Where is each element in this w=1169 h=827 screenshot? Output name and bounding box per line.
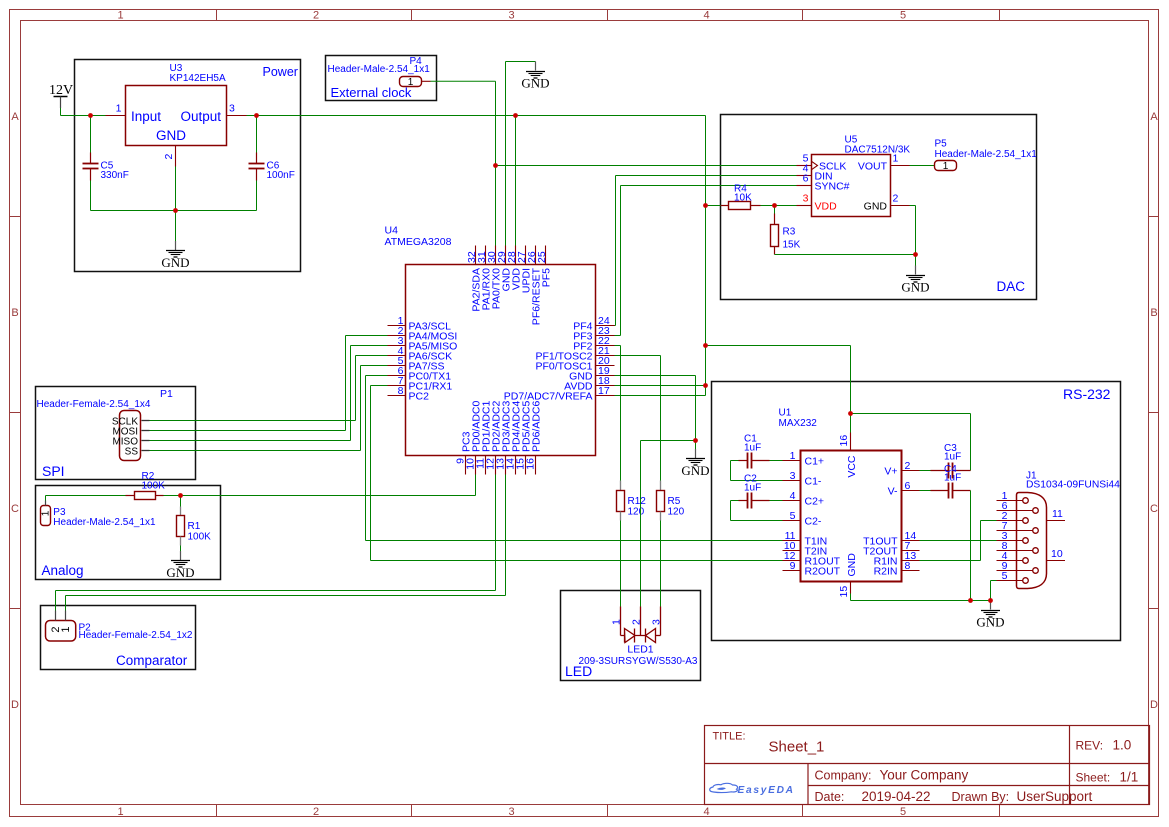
svg-text:Header-Female-2.54_1x4: Header-Female-2.54_1x4	[37, 399, 151, 410]
svg-text:ATMEGA3208: ATMEGA3208	[385, 236, 452, 248]
wire PF2 to R12	[615, 346, 621, 481]
svg-text:3: 3	[508, 10, 514, 22]
svg-text:Header-Female-2.54_1x2: Header-Female-2.54_1x2	[79, 630, 193, 641]
U4 pin 20 PF0/TOSC1	[596, 365, 615, 367]
svg-text:DS1034-09FUNSi44: DS1034-09FUNSi44	[1026, 480, 1120, 491]
U4 pin 28 VDD	[515, 246, 517, 265]
junction VCC corner	[848, 411, 853, 416]
wire P2 pin2 to PD2/ADC2	[55, 611, 57, 621]
svg-text:SYNC#: SYNC#	[815, 181, 850, 193]
svg-text:9: 9	[790, 560, 796, 572]
wire P2 pin1 to PD3/ADC3	[65, 611, 67, 621]
wire +5V to MAX232 VCC	[706, 346, 851, 433]
svg-text:5: 5	[900, 10, 906, 22]
svg-text:5: 5	[900, 806, 906, 818]
resistor R1	[180, 496, 182, 507]
svg-text:PD6/ADC6: PD6/ADC6	[531, 400, 543, 452]
svg-text:2: 2	[313, 10, 319, 22]
J1 pin 3	[997, 540, 1023, 542]
U4 pin 3 PA5/MISO	[388, 345, 406, 347]
svg-text:R1: R1	[188, 521, 201, 532]
junction C4 ground	[968, 598, 973, 603]
U4 pin 27 UPDI	[525, 246, 527, 265]
J1 pin 11	[1047, 520, 1066, 522]
wire PD7/ADC7/VREFA to +5V column	[615, 395, 706, 397]
svg-text:4: 4	[703, 10, 709, 22]
J1 pin 8	[997, 550, 1033, 552]
svg-text:B: B	[1150, 307, 1157, 319]
svg-text:RS-232: RS-232	[1063, 386, 1111, 402]
U4 pin 26 PF6/RESET	[535, 246, 537, 265]
svg-text:Sheet_1: Sheet_1	[769, 739, 825, 756]
J1 pin 2	[997, 520, 1023, 522]
EasyEDA logo	[710, 783, 738, 792]
wire R2 to junction	[164, 495, 181, 497]
junction AVDD	[703, 383, 708, 388]
wire SS to PA7/SS	[150, 366, 388, 451]
svg-text:Input: Input	[131, 109, 161, 124]
svg-text:3: 3	[803, 193, 809, 205]
svg-text:1/1: 1/1	[1120, 770, 1139, 785]
junction DAC ground	[913, 252, 918, 257]
svg-text:3: 3	[651, 619, 663, 625]
U4 pin 14 PD4/ADC4	[515, 456, 517, 475]
svg-text:15K: 15K	[783, 240, 801, 251]
LED LED1	[621, 607, 661, 643]
svg-text:5: 5	[1002, 570, 1008, 582]
capacitor C3	[920, 470, 931, 472]
U4 pin 5 PA7/SS	[388, 365, 406, 367]
resistor R12	[620, 481, 622, 491]
U4 pin 25 PF5	[545, 246, 547, 265]
junction at C5 top	[88, 113, 93, 118]
svg-text:C1-: C1-	[805, 476, 822, 488]
J1 pin 5	[997, 580, 1023, 582]
U1 pin 1 C1+	[783, 460, 801, 462]
DAC chip U5 body	[812, 155, 891, 217]
svg-text:A: A	[11, 111, 19, 123]
U1 pin 5 C2-	[783, 520, 801, 522]
capacitor C5	[90, 116, 92, 153]
ground symbol RS-232	[990, 601, 992, 610]
section box DAC	[721, 115, 1037, 300]
wire junction to ground flag near U4	[695, 441, 697, 450]
U4 pin 12 PD2/ADC2	[495, 456, 497, 475]
wire junction to DAC ground flag	[915, 255, 917, 266]
title block frame	[705, 726, 1150, 805]
resistor R2	[126, 495, 135, 497]
ground symbol top	[535, 62, 537, 71]
svg-text:Comparator: Comparator	[116, 653, 188, 668]
section box Analog	[36, 486, 221, 580]
svg-text:Drawn By:: Drawn By:	[952, 790, 1010, 804]
svg-text:DAC: DAC	[997, 279, 1026, 294]
svg-text:SPI: SPI	[42, 463, 65, 479]
wire VCC top link	[851, 414, 971, 471]
U4 pin 13 PD3/ADC3	[505, 456, 507, 475]
U4 pin 18 AVDD	[596, 385, 615, 387]
svg-text:R5: R5	[668, 496, 681, 507]
svg-text:D: D	[1150, 699, 1158, 711]
U4 pin 31 PA1/RX0	[485, 246, 487, 265]
svg-text:11: 11	[1052, 508, 1063, 520]
U1 pin 2 V+	[902, 470, 920, 472]
wire +12V rail	[61, 115, 706, 117]
U3 pin 1	[106, 115, 126, 117]
svg-text:U4: U4	[385, 225, 399, 237]
resistor R3	[774, 206, 776, 225]
connector P3 body	[41, 506, 51, 526]
svg-text:Header-Male-2.54_1x1: Header-Male-2.54_1x1	[53, 517, 156, 528]
U4 pin 1 PA3/SCL	[388, 325, 406, 327]
svg-text:P5: P5	[935, 139, 948, 150]
U5 pin 6 SYNC#	[797, 185, 812, 187]
svg-text:U1: U1	[779, 408, 792, 419]
U4 pin 2 PA4/MOSI	[388, 335, 406, 337]
svg-text:120: 120	[668, 507, 685, 518]
svg-text:GND: GND	[521, 76, 549, 91]
J1 pin 10	[1047, 560, 1066, 562]
svg-text:Power: Power	[263, 65, 298, 79]
svg-text:R3: R3	[783, 227, 796, 238]
svg-text:GND: GND	[976, 615, 1004, 630]
svg-text:R2IN: R2IN	[874, 566, 898, 578]
connector P5 pin box	[935, 161, 957, 171]
svg-text:C: C	[1150, 503, 1158, 515]
junction GND net right	[693, 438, 698, 443]
wire +5V to R4	[706, 205, 721, 207]
U4 pin 15 PD5/ADC5	[525, 456, 527, 475]
U4 pin 16 PD6/ADC6	[535, 456, 537, 475]
svg-text:R12: R12	[628, 496, 647, 507]
U1 pin 14 T1OUT	[902, 540, 920, 542]
wire R3 bottom to DAC ground	[775, 254, 916, 256]
svg-text:1.0: 1.0	[1113, 738, 1132, 753]
U1 pin 11 T1IN	[783, 540, 801, 542]
capacitor C2	[770, 500, 783, 502]
MCU U4 body	[406, 265, 596, 456]
U5 pin 4 DIN	[797, 175, 812, 177]
svg-text:GND: GND	[901, 280, 929, 295]
svg-text:REV:: REV:	[1076, 739, 1104, 753]
U1 pin 13 R1IN	[902, 560, 920, 562]
svg-text:2: 2	[893, 193, 899, 205]
svg-text:2: 2	[905, 460, 911, 472]
U1 pin 3 C1-	[783, 480, 801, 482]
connector J1 body	[1017, 493, 1047, 589]
MAX232 U1 body	[801, 451, 902, 582]
wire U1 GND pin to ground rail	[850, 594, 852, 601]
U5 pin 5 SCLK	[797, 165, 812, 167]
svg-text:25: 25	[536, 251, 548, 263]
U4 pin 30 PA0/TX0	[495, 246, 497, 265]
svg-text:C2-: C2-	[805, 516, 822, 528]
svg-text:16: 16	[525, 458, 537, 470]
svg-text:1uF: 1uF	[744, 443, 761, 454]
U5 pin 3 VDD	[797, 205, 812, 207]
junction SCLK net at column x495	[493, 163, 498, 168]
svg-text:1: 1	[943, 161, 949, 172]
svg-text:6: 6	[803, 173, 809, 185]
svg-text:P1: P1	[160, 388, 173, 400]
svg-text:Header-Male-2.54_1x1: Header-Male-2.54_1x1	[328, 64, 431, 75]
U4 pin 24 PF4	[596, 325, 615, 327]
wire SYNC row from PF3	[615, 186, 797, 336]
U3 pin 2	[175, 146, 177, 167]
P4 pin 1 lead	[422, 80, 431, 82]
svg-text:V+: V+	[884, 466, 897, 478]
wire DIN row from PF4	[615, 176, 797, 326]
wire U3 pin2 to ground rail	[175, 167, 177, 211]
svg-text:4: 4	[703, 806, 709, 818]
U4 pin 10 PD0/ADC0	[475, 456, 477, 475]
svg-text:1: 1	[40, 510, 51, 516]
svg-text:1: 1	[790, 450, 796, 462]
U1 pin 10 T2IN	[783, 550, 801, 552]
svg-text:1: 1	[60, 626, 72, 632]
svg-text:2: 2	[631, 619, 643, 625]
svg-text:VCC: VCC	[846, 455, 858, 478]
U4 pin 9 PC3	[465, 456, 467, 475]
U4 pin 7 PC1/RX1	[388, 385, 406, 387]
svg-text:PC2: PC2	[409, 391, 430, 403]
wire U4 VDD pin28 to +5V rail	[515, 116, 517, 246]
wire R4 to U5 VDD	[761, 205, 797, 207]
connector P4 pin box	[400, 77, 422, 87]
wire R1IN to J1 pin2	[920, 521, 997, 561]
U1 pin 4 C2+	[783, 500, 801, 502]
U4 pin 32 PA2/SDA	[475, 246, 477, 265]
svg-text:GND: GND	[846, 553, 858, 577]
junction at U4 VDD column	[513, 113, 518, 118]
U1 pin 9 R2OUT	[783, 570, 801, 572]
wire J1 pin5 to ground	[991, 581, 997, 601]
section box Comparator	[41, 606, 196, 670]
U4 pin 29 GND	[505, 246, 507, 265]
U5 pin 2 GND	[890, 205, 910, 207]
svg-text:100K: 100K	[188, 532, 212, 543]
wire VOUT to P5	[910, 165, 935, 167]
svg-text:GND: GND	[161, 255, 189, 270]
resistor R4	[721, 205, 729, 207]
U4 pin 23 PF3	[596, 335, 615, 337]
svg-text:LED1: LED1	[627, 644, 653, 656]
wire 12V flag to rail	[60, 108, 62, 116]
svg-text:GND: GND	[864, 201, 888, 213]
connector P1 body	[120, 411, 141, 461]
wire U4 GND pin19 net	[615, 376, 696, 441]
wire MOSI to PA4/MOSI	[150, 336, 388, 431]
wire P3 pin to R2	[45, 501, 47, 506]
svg-text:SS: SS	[125, 446, 139, 457]
svg-text:6: 6	[905, 480, 911, 492]
ground symbol analog	[180, 551, 182, 560]
U4 pin 22 PF2	[596, 345, 615, 347]
svg-text:Output: Output	[181, 109, 222, 124]
svg-text:VOUT: VOUT	[858, 161, 888, 173]
section box Power	[75, 60, 301, 272]
section box RS-232	[712, 382, 1121, 641]
wire T1OUT to J1 pin3	[920, 540, 997, 542]
svg-text:PF5: PF5	[541, 268, 553, 287]
junction PF2 VCC feed	[703, 343, 708, 348]
wire PC0/TX1 to T1IN	[366, 376, 783, 541]
svg-text:4: 4	[790, 490, 796, 502]
J1 pin 7	[997, 530, 1033, 532]
wire SCLK row	[496, 165, 797, 167]
svg-text:V-: V-	[888, 486, 898, 498]
svg-text:1: 1	[408, 77, 414, 88]
wire analog net to PD0/ADC0	[181, 475, 476, 496]
J1 pin 6	[997, 510, 1033, 512]
junction R1 top	[178, 493, 183, 498]
svg-text:R2OUT: R2OUT	[805, 566, 841, 578]
wire U4 GND pin29 to top ground flag	[506, 62, 536, 246]
J1 pin 4	[997, 560, 1023, 562]
svg-text:1uF: 1uF	[744, 483, 761, 494]
ground symbol DAC	[915, 266, 917, 275]
svg-text:2: 2	[313, 806, 319, 818]
svg-text:A: A	[1150, 111, 1158, 123]
svg-text:100K: 100K	[142, 481, 166, 492]
svg-text:1: 1	[611, 619, 623, 625]
U1 pin 12 R1OUT	[783, 560, 801, 562]
svg-text:3: 3	[508, 806, 514, 818]
svg-text:10: 10	[1051, 548, 1063, 560]
U3 pin 3	[227, 115, 247, 117]
svg-text:1uF: 1uF	[944, 452, 961, 463]
svg-text:C1+: C1+	[805, 456, 825, 468]
ground symbol near U4	[695, 449, 697, 458]
wire to power ground symbol	[175, 211, 177, 242]
svg-text:Date:: Date:	[815, 790, 845, 804]
junction at C6 top	[254, 113, 259, 118]
wire RS-232 ground rail	[851, 600, 991, 602]
junction power ground	[173, 208, 178, 213]
wire U5 GND pin2 down	[910, 206, 916, 255]
capacitor C6	[256, 116, 258, 153]
svg-text:C2+: C2+	[805, 496, 825, 508]
U4 pin 19 GND	[596, 375, 615, 377]
U1 pin 6 V-	[902, 490, 920, 492]
connector P2 body	[46, 621, 76, 642]
svg-text:1: 1	[117, 10, 123, 22]
svg-text:B: B	[11, 307, 18, 319]
regulator U3 body	[126, 86, 227, 146]
svg-text:8: 8	[398, 385, 404, 397]
svg-text:GND: GND	[166, 565, 194, 580]
junction R3 top	[772, 203, 777, 208]
U1 pin 15 GND	[850, 582, 852, 594]
svg-text:GND: GND	[681, 463, 709, 478]
svg-text:Sheet:: Sheet:	[1076, 771, 1111, 785]
wire GND branch to LED pin2	[641, 441, 696, 607]
svg-text:5: 5	[790, 510, 796, 522]
svg-text:1: 1	[893, 153, 899, 165]
svg-text:17: 17	[598, 385, 610, 397]
junction DAC VDD net	[703, 203, 708, 208]
capacitor C4	[920, 490, 931, 492]
capacitor C1	[770, 460, 783, 462]
svg-text:1: 1	[116, 103, 122, 115]
svg-text:3: 3	[790, 470, 796, 482]
svg-text:3: 3	[229, 103, 235, 115]
svg-text:1: 1	[117, 806, 123, 818]
J1 pin 9	[997, 570, 1033, 572]
wire power ground rail	[91, 210, 257, 212]
svg-text:8: 8	[905, 560, 911, 572]
U4 pin 6 PC0/TX1	[388, 375, 406, 377]
svg-text:External clock: External clock	[331, 85, 412, 100]
svg-text:15: 15	[838, 586, 850, 598]
svg-text:10K: 10K	[734, 193, 752, 204]
ground symbol power section	[175, 241, 177, 250]
wire +5V vertical column x705	[705, 116, 707, 396]
svg-text:209-3SURSYGW/S530-A3: 209-3SURSYGW/S530-A3	[579, 656, 698, 667]
wire PC1/RX1 to R1OUT	[371, 386, 783, 561]
svg-text:EasyEDA: EasyEDA	[738, 785, 795, 796]
wire AVDD to +5V column	[615, 385, 706, 387]
U4 pin 17 PD7/ADC7/VREFA	[596, 395, 615, 397]
wire MISO to PA5/MISO	[150, 346, 388, 441]
svg-text:D: D	[11, 699, 19, 711]
wire R5 to LED pin3	[660, 521, 662, 607]
svg-text:16: 16	[838, 435, 850, 447]
svg-text:VDD: VDD	[815, 201, 838, 213]
svg-text:Analog: Analog	[42, 563, 84, 578]
wire C4 to ground rail	[970, 491, 972, 601]
section box SPI	[36, 387, 196, 480]
U4 pin 21 PF1/TOSC2	[596, 355, 615, 357]
svg-text:100nF: 100nF	[267, 170, 295, 181]
section box External clock	[326, 56, 437, 101]
svg-text:1uF: 1uF	[944, 473, 961, 484]
section box LED	[561, 591, 701, 681]
U1 pin 8 R2IN	[902, 570, 920, 572]
resistor R5	[660, 481, 662, 491]
wire P4 to PA0/TX0 column	[431, 81, 496, 245]
U5 pin 1 VOUT	[890, 165, 910, 167]
svg-text:120: 120	[628, 507, 645, 518]
svg-text:KP142EH5A: KP142EH5A	[170, 73, 226, 84]
svg-text:2: 2	[163, 154, 175, 160]
U1 pin 16 VCC	[850, 433, 852, 451]
svg-text:2019-04-22: 2019-04-22	[862, 789, 931, 804]
wire SCLK to PA6/SCK	[150, 356, 388, 421]
svg-text:DAC7512N/3K: DAC7512N/3K	[845, 145, 911, 156]
junction J1 ground	[988, 598, 993, 603]
U1 pin 7 T2OUT	[902, 550, 920, 552]
svg-text:UserSupport: UserSupport	[1017, 789, 1093, 804]
wire R12 to LED pin1	[620, 521, 622, 607]
svg-text:330nF: 330nF	[101, 170, 129, 181]
svg-text:Header-Male-2.54_1x1: Header-Male-2.54_1x1	[935, 149, 1038, 160]
U4 pin 11 PD1/ADC1	[485, 456, 487, 475]
svg-text:Company:: Company:	[815, 769, 872, 783]
svg-text:TITLE:: TITLE:	[713, 731, 746, 743]
U4 pin 8 PC2	[388, 395, 406, 397]
J1 pin 1	[997, 500, 1023, 502]
svg-text:C: C	[11, 503, 19, 515]
svg-text:GND: GND	[156, 128, 186, 143]
U4 pin 4 PA6/SCK	[388, 355, 406, 357]
svg-text:Your Company: Your Company	[880, 768, 969, 783]
svg-text:MAX232: MAX232	[779, 418, 818, 429]
wire PF1/TOSC2 to R5	[615, 356, 661, 481]
